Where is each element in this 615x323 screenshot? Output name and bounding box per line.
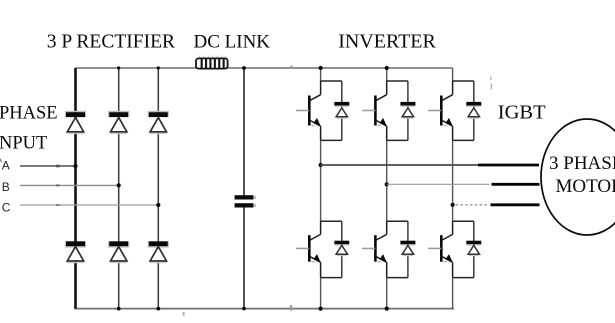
wire inverter leg 2 upper drop	[386, 68, 388, 81]
diode D6 (rectifier lower)	[148, 241, 169, 263]
diode D2 (rectifier upper)	[108, 111, 129, 134]
diode D1 (rectifier upper)	[65, 111, 86, 134]
junction output W / leg3	[451, 203, 455, 207]
diode D4 (rectifier lower)	[65, 241, 86, 263]
junction phase C / leg3	[156, 203, 160, 207]
node C label	[2, 200, 11, 214]
svg-text:IGBT: IGBT	[498, 102, 546, 124]
svg-text:DC LINK: DC LINK	[194, 32, 271, 53]
wire inverter leg 3 midsection	[452, 140, 454, 221]
svg-text:A: A	[2, 159, 10, 173]
svg-text:NPUT: NPUT	[0, 134, 47, 154]
diode D3 (rectifier upper)	[148, 111, 169, 134]
transistor Q1 (IGBT upper leg 1)	[296, 81, 342, 140]
junction bottom bus / leg 2	[385, 307, 389, 311]
diode D7 (freewheel, upper leg 1)	[334, 81, 349, 140]
wire top DC bus	[76, 67, 453, 69]
svg-text:C: C	[2, 200, 11, 214]
diode D11 (freewheel, lower leg 2)	[400, 221, 415, 277]
transistor Q6 (IGBT lower leg 3)	[428, 221, 474, 277]
motor M1 (3 phase motor)	[541, 119, 615, 235]
diode D8 (freewheel, upper leg 2)	[400, 81, 415, 140]
junction output U / leg1	[319, 163, 323, 167]
capacitor C1 (DC link)	[235, 195, 256, 207]
wire inverter leg 3 upper drop	[452, 68, 454, 81]
junction cap / bottom bus	[242, 307, 246, 311]
transistor Q2 (IGBT upper leg 2)	[362, 81, 408, 140]
label DC LINK	[194, 32, 271, 53]
wire output W dashed	[456, 204, 489, 206]
label 3 P RECTIFIER	[47, 32, 175, 53]
junction bottom bus / rectifier leg3	[156, 307, 160, 311]
wire output V thin	[387, 183, 490, 185]
diode D12 (freewheel, lower leg 3)	[466, 221, 481, 277]
wire phase C	[20, 204, 158, 206]
junction phase B / leg2	[117, 183, 121, 187]
artifact tick below bottom bus	[183, 312, 185, 316]
junction top bus / leg 2	[385, 66, 389, 70]
diode D9 (freewheel, upper leg 3)	[466, 81, 481, 140]
wire output U thin	[321, 164, 478, 166]
svg-text:B: B	[2, 180, 10, 194]
label INPUT (3 phase input)	[0, 134, 47, 154]
wire inverter leg 2 midsection	[386, 140, 388, 221]
wire inverter leg 1 bottom drop	[320, 278, 322, 309]
wire inverter leg 1 upper drop	[320, 68, 322, 81]
artifact blob on bottom bus	[290, 305, 292, 310]
wire capacitor branch lower	[243, 208, 245, 309]
svg-text:INVERTER: INVERTER	[338, 31, 436, 53]
wire rectifier leg 3	[157, 68, 159, 309]
label IGBT	[498, 102, 546, 124]
wire output V thick	[492, 183, 540, 186]
junction top bus / rectifier leg3	[157, 66, 160, 69]
label PHASE (3 phase input)	[0, 103, 58, 123]
junction bottom bus / rectifier leg2	[117, 307, 121, 311]
junction phase A / leg1	[73, 164, 77, 168]
junction cap / top bus	[242, 66, 246, 70]
wire inverter leg 1 midsection	[320, 140, 322, 221]
wire rectifier leg 2	[118, 68, 120, 309]
junction output V / leg2	[385, 182, 389, 186]
diode D5 (rectifier lower)	[108, 241, 129, 263]
wire output U thick	[478, 164, 539, 167]
svg-text:3 PHASE: 3 PHASE	[549, 153, 615, 174]
transistor Q3 (IGBT upper leg 3)	[428, 81, 474, 140]
svg-text:MOTOR: MOTOR	[556, 176, 615, 197]
artifact gray dash pair near leg3 top	[490, 77, 493, 90]
wire inverter leg 2 bottom drop	[386, 278, 388, 309]
junction top bus / rectifier leg2	[117, 66, 120, 69]
node B label	[2, 180, 10, 194]
junction top bus / leg 1	[319, 66, 323, 70]
wire phase A	[20, 165, 76, 167]
node A label	[2, 159, 10, 173]
wire inverter leg 3 bottom drop	[452, 278, 454, 309]
wire bottom DC bus	[74, 308, 454, 310]
transistor Q5 (IGBT lower leg 2)	[362, 221, 408, 277]
wire phase B	[20, 184, 119, 186]
artifact tick on top bus	[290, 66, 293, 69]
wire capacitor branch upper	[243, 68, 245, 195]
junction bottom bus / leg 1	[319, 307, 323, 311]
svg-text:3 P RECTIFIER: 3 P RECTIFIER	[47, 32, 175, 53]
label INVERTER	[338, 31, 436, 53]
wire output W thick	[491, 203, 540, 206]
svg-text:PHASE: PHASE	[0, 103, 58, 123]
diode D10 (freewheel, lower leg 1)	[334, 221, 349, 277]
tick before node A	[0, 159, 2, 163]
transistor Q4 (IGBT lower leg 1)	[296, 221, 342, 277]
inductor L1 (DC link choke)	[196, 56, 228, 69]
wire rectifier leg 1	[74, 68, 77, 309]
